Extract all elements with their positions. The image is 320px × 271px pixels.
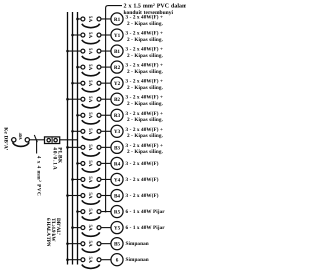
svg-text:5A: 5A: [87, 224, 93, 231]
load label of circuit B3: [126, 143, 164, 155]
svg-text:5A: 5A: [87, 64, 93, 71]
fuse switch Y3 5A: [81, 128, 101, 140]
svg-text:R1: R1: [114, 17, 121, 23]
svg-text:B1: B1: [114, 49, 120, 55]
svg-text:3 - 2 x 40W(F) +: 3 - 2 x 40W(F) +: [126, 63, 164, 69]
circuit designator R5: [111, 206, 123, 218]
svg-text:3 - 2 x 40W(F): 3 - 2 x 40W(F): [126, 161, 159, 167]
cable note: 2 x 1.5 mm2 PVC dalam konduit tersembunyi: [124, 3, 188, 16]
svg-text:5A: 5A: [87, 257, 93, 264]
svg-text:2 - Kipas siling.: 2 - Kipas siling.: [127, 69, 164, 75]
circuit designator R3: [111, 109, 123, 121]
wire fuse B3 to circuit circle B3: [101, 146, 111, 148]
fuse switch Y1 5A: [81, 32, 101, 44]
fuse switch Y5 5A: [81, 224, 101, 236]
svg-text:5A: 5A: [87, 32, 93, 39]
label: PLBK 40/0.1A: [52, 147, 63, 170]
svg-text:B4: B4: [114, 193, 120, 199]
node: tap of circuit R3 on busbar: [76, 114, 79, 117]
svg-text:Ke DB’A’: Ke DB’A’: [2, 127, 8, 150]
node: tap of circuit B4 on busbar: [66, 194, 69, 197]
node: tap of circuit Y2 on busbar: [71, 82, 74, 85]
wire busbar to fuse R1: [78, 18, 82, 20]
svg-text:2 - Kipas siling.: 2 - Kipas siling.: [127, 133, 164, 139]
svg-text:Y1: Y1: [114, 33, 121, 39]
svg-text:5A: 5A: [87, 144, 93, 151]
node: tap of circuit B5 on busbar: [66, 242, 69, 245]
svg-text:5A: 5A: [87, 96, 93, 103]
fuse switch R4 5A: [81, 160, 101, 172]
svg-text:Y4: Y4: [114, 177, 121, 183]
svg-text:R5: R5: [114, 209, 121, 215]
leader to feeder cable label: [36, 140, 38, 154]
svg-text:Y3: Y3: [114, 129, 121, 135]
svg-text:3 - 2 x 40W(F) +: 3 - 2 x 40W(F) +: [126, 95, 164, 101]
load label of circuit R2: [126, 63, 164, 75]
wire busbar to fuse 6: [68, 259, 82, 261]
fuse switch 6 5A: [81, 257, 101, 269]
board title: DB-AL TL:4.9 kW 6 HALA TPN: [45, 218, 61, 247]
wire main switch to PLBK: [30, 139, 45, 141]
wire fuse Y5 to circuit circle Y5: [101, 227, 111, 229]
node: tap of circuit R2 on busbar: [76, 66, 79, 69]
svg-text:Simpanan: Simpanan: [126, 241, 149, 247]
circuit designator B2: [111, 93, 123, 105]
wire busbar to fuse Y4: [73, 178, 82, 180]
svg-text:5A: 5A: [87, 16, 93, 23]
node: tap of circuit R1 on busbar: [76, 18, 79, 21]
circuit designator R1: [111, 13, 123, 25]
svg-text:2 - Kipas siling.: 2 - Kipas siling.: [127, 85, 164, 91]
circuit designator B4: [111, 189, 123, 201]
node: tap of circuit B2 on busbar: [66, 98, 69, 101]
node: tap of circuit Y4 on busbar: [71, 178, 74, 181]
circuit designator Y2: [111, 77, 123, 89]
svg-text:B5: B5: [114, 242, 120, 248]
svg-text:2 x 1.5 mm2 PVC dalam: 2 x 1.5 mm2 PVC dalam: [124, 3, 187, 10]
wire fuse R5 to circuit circle R5: [101, 211, 111, 213]
svg-text:4 x 4 mm2 PVC: 4 x 4 mm2 PVC: [36, 156, 43, 196]
svg-text:5A: 5A: [87, 112, 93, 119]
wire fuse R3 to circuit circle R3: [101, 114, 111, 116]
fuse switch B2 5A: [81, 96, 101, 108]
svg-text:R4: R4: [114, 161, 121, 167]
wire busbar to fuse B2: [68, 98, 82, 100]
wire busbar to fuse R2: [78, 66, 82, 68]
fuse switch R1 5A: [81, 16, 101, 28]
load label of circuit Y2: [126, 79, 164, 91]
load label of circuit B1: [126, 47, 164, 59]
circuit designator 6: [111, 254, 123, 266]
wire busbar to fuse B4: [68, 195, 82, 197]
load label of circuit B2: [126, 95, 164, 107]
wire incoming from DB-A: [10, 139, 13, 141]
load label of circuit R3: [126, 111, 164, 123]
wire fuse 6 to circuit circle 6: [101, 259, 111, 261]
wire busbar to fuse Y1: [73, 34, 82, 36]
wire fuse B5 to circuit circle B5: [101, 243, 111, 245]
svg-text:5A: 5A: [87, 176, 93, 183]
circuit designator B5: [111, 238, 123, 250]
node: tap of circuit Y1 on busbar: [71, 34, 74, 37]
node: tap of circuit 6 on busbar: [66, 258, 69, 261]
node: tap of circuit Y5 on busbar: [71, 226, 74, 229]
svg-text:5A: 5A: [87, 128, 93, 135]
wire busbar to fuse R3: [78, 114, 82, 116]
fuse switch B1 5A: [81, 48, 101, 60]
svg-text:3 - 2 x 40W(F) +: 3 - 2 x 40W(F) +: [126, 79, 164, 85]
svg-text:6: 6: [116, 258, 119, 264]
wire busbar to fuse Y2: [73, 82, 82, 84]
node: tap of circuit Y3 on busbar: [71, 130, 74, 133]
wire busbar to fuse B3: [68, 146, 82, 148]
svg-text:2 - Kipas siling.: 2 - Kipas siling.: [127, 21, 164, 27]
svg-text:3 - 2 x 40W(F): 3 - 2 x 40W(F): [126, 177, 159, 183]
svg-text:R3: R3: [114, 113, 121, 119]
fuse switch R2 5A: [81, 64, 101, 76]
svg-text:40/0.1A: 40/0.1A: [52, 147, 58, 170]
svg-text:3 - 2 x 40W(F) +: 3 - 2 x 40W(F) +: [126, 127, 164, 133]
wire busbar to fuse R5: [78, 211, 82, 213]
svg-text:6 HALA TPN: 6 HALA TPN: [45, 218, 51, 247]
circuit designator Y4: [111, 173, 123, 185]
svg-text:2 - Kipas siling.: 2 - Kipas siling.: [127, 37, 164, 43]
wire fuse R2 to circuit circle R2: [101, 66, 111, 68]
leader line for final circuit cable note: [106, 6, 122, 212]
svg-text:2 - Kipas siling.: 2 - Kipas siling.: [127, 53, 164, 59]
RCD unit PLBK: [45, 137, 60, 144]
svg-text:3 - 2 x 40W(F) +: 3 - 2 x 40W(F) +: [126, 14, 164, 20]
circuit designator Y5: [111, 222, 123, 234]
svg-text:40A: 40A: [18, 133, 23, 141]
busbar phase R (right vertical line): [77, 12, 79, 265]
node: leader line end on circuit R5 wire: [105, 211, 107, 213]
fuse switch B3 5A: [81, 144, 101, 156]
node: tap of circuit R4 on busbar: [76, 162, 79, 165]
circuit designator B3: [111, 141, 123, 153]
wire PLBK to busbars: [60, 139, 78, 141]
wire fuse B2 to circuit circle B2: [101, 98, 111, 100]
busbar phase Y (middle vertical line): [72, 12, 74, 265]
svg-text:6 - 1 x 40W Pijar: 6 - 1 x 40W Pijar: [126, 225, 166, 231]
cable count slash on feeder: [34, 135, 37, 142]
svg-text:3 - 2 x 40W(F) +: 3 - 2 x 40W(F) +: [126, 47, 164, 53]
fuse switch Y4 5A: [81, 176, 101, 188]
svg-text:6 - 1 x 40W Pijar: 6 - 1 x 40W Pijar: [126, 209, 166, 215]
svg-text:3 - 2 x 40W(F): 3 - 2 x 40W(F): [126, 193, 159, 199]
main switch 40A: [12, 133, 30, 147]
wire fuse B4 to circuit circle B4: [101, 195, 111, 197]
svg-text:2 - Kipas siling.: 2 - Kipas siling.: [127, 117, 164, 123]
node: tap of circuit B1 on busbar: [66, 50, 69, 53]
svg-text:Simpanan: Simpanan: [126, 257, 149, 263]
busbar phase B (left vertical line): [67, 12, 69, 265]
load label of circuit Y3: [126, 127, 164, 139]
svg-text:3 - 2 x 40W(F) +: 3 - 2 x 40W(F) +: [126, 111, 164, 117]
svg-text:B3: B3: [114, 145, 120, 151]
svg-text:3 - 2 x 40W(F) +: 3 - 2 x 40W(F) +: [126, 143, 164, 149]
wire fuse Y3 to circuit circle Y3: [101, 130, 111, 132]
svg-text:Y5: Y5: [114, 226, 121, 232]
svg-text:5A: 5A: [87, 160, 93, 167]
fuse switch B4 5A: [81, 192, 101, 204]
wire busbar to fuse Y3: [73, 130, 82, 132]
fuse switch R3 5A: [81, 112, 101, 124]
load label of circuit Y1: [126, 31, 164, 43]
node: tap of circuit B3 on busbar: [66, 146, 69, 149]
svg-text:2 - Kipas siling.: 2 - Kipas siling.: [127, 149, 164, 155]
svg-text:5A: 5A: [87, 80, 93, 87]
svg-text:Y2: Y2: [114, 81, 121, 87]
wire fuse Y2 to circuit circle Y2: [101, 82, 111, 84]
wire fuse R1 to circuit circle R1: [101, 18, 111, 20]
svg-text:3 - 2 x 40W(F) +: 3 - 2 x 40W(F) +: [126, 31, 164, 37]
circuit designator Y3: [111, 125, 123, 137]
wire busbar to fuse Y5: [73, 227, 82, 229]
wire fuse B1 to circuit circle B1: [101, 50, 111, 52]
wire busbar to fuse B5: [68, 243, 82, 245]
circuit designator B1: [111, 45, 123, 57]
svg-text:R2: R2: [114, 65, 121, 71]
svg-text:5A: 5A: [87, 192, 93, 199]
wire fuse Y4 to circuit circle Y4: [101, 178, 111, 180]
wire busbar to fuse B1: [68, 50, 82, 52]
wire busbar to fuse R4: [78, 162, 82, 164]
wire fuse R4 to circuit circle R4: [101, 162, 111, 164]
svg-text:2 - Kipas siling.: 2 - Kipas siling.: [127, 101, 164, 107]
load label of circuit R1: [126, 14, 164, 26]
node: tap of circuit R5 on busbar: [76, 210, 79, 213]
fuse switch Y2 5A: [81, 80, 101, 92]
svg-text:5A: 5A: [87, 241, 93, 248]
svg-text:5A: 5A: [87, 208, 93, 215]
svg-text:B2: B2: [114, 97, 120, 103]
wire fuse Y1 to circuit circle Y1: [101, 34, 111, 36]
svg-text:5A: 5A: [87, 48, 93, 55]
circuit designator R4: [111, 157, 123, 169]
fuse switch R5 5A: [81, 208, 101, 220]
circuit designator R2: [111, 61, 123, 73]
circuit designator Y1: [111, 29, 123, 41]
fuse switch B5 5A: [81, 241, 101, 253]
